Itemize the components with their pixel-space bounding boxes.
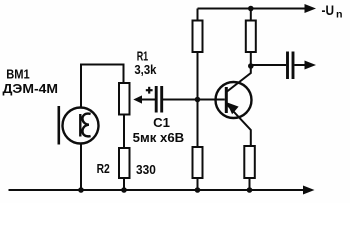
- transistor VT1 circle: [216, 82, 252, 118]
- capacitor output plate left: [286, 52, 289, 80]
- junction bottom rail / left divider: [195, 187, 201, 193]
- wire R1 bottom to R2 top: [123, 115, 125, 149]
- svg-text:3,3k: 3,3k: [134, 63, 156, 77]
- wire collector node to output capacitor: [251, 64, 286, 66]
- junction bottom rail / R2: [121, 187, 127, 193]
- wire wiper arrow to C1: [141, 99, 155, 101]
- svg-text:C1: C1: [153, 116, 170, 130]
- wire left divider column upper lead: [197, 9, 199, 21]
- microphone BM1 armature bar: [79, 114, 81, 137]
- wire emitter resistor to bottom rail: [249, 178, 251, 190]
- label -Un: [322, 2, 343, 20]
- capacitor output plate right: [292, 52, 295, 80]
- svg-text:ВМ1: ВМ1: [6, 68, 30, 82]
- microphone BM1 coil: [82, 114, 90, 137]
- resistor collector load: [246, 21, 256, 53]
- wire R2 bottom to rail: [123, 178, 125, 190]
- wire output capacitor to arrow: [295, 64, 307, 66]
- transistor VT1 collector lead: [227, 66, 251, 92]
- capacitor C1 wiper arrow: [133, 95, 142, 103]
- svg-text:330: 330: [136, 163, 156, 177]
- wire top -Un rail: [198, 8, 306, 10]
- transistor VT1 base bar: [225, 87, 228, 113]
- svg-text:R2: R2: [97, 162, 110, 176]
- wire base wire: [198, 99, 225, 101]
- wire lower-left resistor to bottom rail: [197, 178, 199, 190]
- capacitor C1 plate left: [155, 86, 158, 113]
- wire collector column upper lead: [250, 9, 252, 21]
- wire collector resistor to collector node: [250, 52, 252, 66]
- junction top rail / collector column: [248, 6, 254, 12]
- microphone BM1 circle: [63, 108, 99, 144]
- microphone BM1 diaphragm bar: [57, 106, 60, 145]
- svg-text:n: n: [336, 8, 343, 20]
- wire C1 to base node: [163, 99, 198, 101]
- resistor emitter (lower-right): [244, 146, 255, 178]
- arrow to -Un: [305, 4, 317, 13]
- junction base node: [195, 97, 201, 103]
- svg-text:5мк х6В: 5мк х6В: [133, 131, 185, 145]
- svg-text:R1: R1: [137, 50, 149, 64]
- svg-text:-U: -U: [322, 2, 335, 18]
- wire mic top to R1 top: [81, 65, 124, 108]
- wire mic bottom to rail: [80, 144, 82, 191]
- arrow output: [305, 61, 317, 70]
- svg-text:ДЭМ-4М: ДЭМ-4М: [3, 82, 59, 96]
- resistor R2: [119, 148, 130, 178]
- resistor R1: [119, 83, 130, 115]
- resistor lower-left (base divider): [193, 147, 203, 178]
- resistor upper-left (base divider): [193, 21, 203, 53]
- wire left column resistor to base junction to lower resistor: [197, 52, 199, 147]
- junction bottom rail / mic: [78, 187, 84, 193]
- capacitor C1 plate right: [160, 86, 163, 113]
- wire bottom rail: [9, 189, 305, 191]
- transistor VT1 emitter arrow (PNP): [227, 102, 239, 114]
- arrow bottom rail: [303, 186, 315, 195]
- junction bottom rail / emitter resistor: [247, 187, 253, 193]
- capacitor C1 polarity plus: [146, 87, 153, 94]
- junction collector node: [248, 63, 254, 69]
- transistor VT1 emitter lead: [227, 105, 251, 147]
